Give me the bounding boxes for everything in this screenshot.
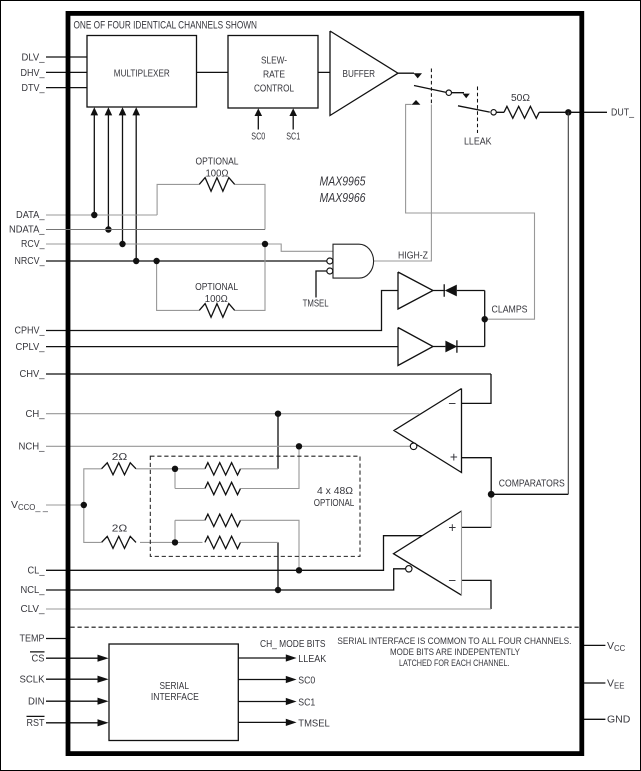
svg-text:VCCO_ _: VCCO_ _ xyxy=(11,499,49,512)
svg-text:OPTIONAL: OPTIONAL xyxy=(196,157,239,168)
svg-text:BUFFER: BUFFER xyxy=(343,68,376,80)
svg-text:4 x 48Ω: 4 x 48Ω xyxy=(317,486,354,497)
svg-text:DTV_: DTV_ xyxy=(22,83,45,94)
svg-text:50Ω: 50Ω xyxy=(511,93,531,104)
svg-text:OPTIONAL: OPTIONAL xyxy=(314,498,355,509)
svg-text:DLV_: DLV_ xyxy=(22,52,45,63)
svg-text:MULTIPLEXER: MULTIPLEXER xyxy=(114,68,170,80)
svg-text:CLAMPS: CLAMPS xyxy=(492,305,528,316)
svg-text:VEE: VEE xyxy=(607,677,624,690)
svg-text:SC0: SC0 xyxy=(251,131,265,142)
svg-text:DUT_: DUT_ xyxy=(611,108,634,119)
svg-text:CPHV_: CPHV_ xyxy=(15,326,45,337)
svg-text:HIGH-Z: HIGH-Z xyxy=(398,250,428,261)
svg-text:SC1: SC1 xyxy=(286,131,300,142)
svg-text:DATA_: DATA_ xyxy=(16,210,45,221)
svg-text:TEMP: TEMP xyxy=(20,634,45,645)
svg-text:CS: CS xyxy=(32,653,45,664)
svg-text:SC1: SC1 xyxy=(298,697,315,708)
svg-text:+: + xyxy=(450,449,458,464)
svg-text:RST: RST xyxy=(27,718,45,729)
svg-text:VCC: VCC xyxy=(607,640,626,653)
svg-text:−: − xyxy=(448,573,456,588)
svg-text:LATCHED FOR EACH CHANNEL.: LATCHED FOR EACH CHANNEL. xyxy=(399,658,510,669)
svg-text:GND: GND xyxy=(607,714,631,726)
svg-text:TMSEL: TMSEL xyxy=(298,718,330,729)
svg-text:NCL_: NCL_ xyxy=(21,585,45,596)
svg-text:CH_: CH_ xyxy=(26,409,45,420)
svg-text:100Ω: 100Ω xyxy=(206,168,229,179)
svg-text:CHV_: CHV_ xyxy=(20,369,45,380)
svg-text:MAX9966: MAX9966 xyxy=(320,190,367,205)
svg-text:NCH_: NCH_ xyxy=(19,442,45,453)
svg-text:100Ω: 100Ω xyxy=(205,294,228,305)
svg-text:SERIAL INTERFACE IS COMMON TO: SERIAL INTERFACE IS COMMON TO ALL FOUR C… xyxy=(337,636,571,647)
svg-text:NRCV_: NRCV_ xyxy=(15,256,45,267)
svg-text:MAX9965: MAX9965 xyxy=(320,173,367,188)
svg-text:CH_ MODE BITS: CH_ MODE BITS xyxy=(260,639,326,650)
svg-text:NDATA_: NDATA_ xyxy=(9,225,45,236)
svg-text:SC0: SC0 xyxy=(298,675,315,686)
svg-text:SLEW-: SLEW- xyxy=(261,55,287,67)
svg-text:CL_: CL_ xyxy=(28,566,45,577)
svg-text:OPTIONAL: OPTIONAL xyxy=(195,282,238,293)
svg-text:RCV_: RCV_ xyxy=(21,239,45,250)
svg-text:2Ω: 2Ω xyxy=(112,523,128,534)
svg-text:MODE BITS ARE INDEPENTENTLY: MODE BITS ARE INDEPENTENTLY xyxy=(390,647,521,658)
svg-text:DHV_: DHV_ xyxy=(21,68,45,79)
svg-text:ONE OF FOUR IDENTICAL CHANNELS: ONE OF FOUR IDENTICAL CHANNELS SHOWN xyxy=(74,19,258,31)
svg-text:LLEAK: LLEAK xyxy=(464,136,492,147)
svg-text:DIN: DIN xyxy=(28,696,45,707)
svg-text:2Ω: 2Ω xyxy=(112,452,128,463)
svg-text:RATE: RATE xyxy=(263,69,285,81)
svg-text:CONTROL: CONTROL xyxy=(254,83,294,95)
svg-text:−: − xyxy=(448,396,456,411)
svg-text:LLEAK: LLEAK xyxy=(298,654,326,665)
svg-text:SCLK: SCLK xyxy=(20,674,45,685)
svg-text:COMPARATORS: COMPARATORS xyxy=(499,479,565,490)
svg-text:TMSEL: TMSEL xyxy=(303,299,329,310)
svg-text:CLV_: CLV_ xyxy=(21,604,45,615)
svg-text:+: + xyxy=(448,520,456,535)
svg-text:INTERFACE: INTERFACE xyxy=(151,691,199,703)
svg-text:CPLV_: CPLV_ xyxy=(16,342,45,353)
